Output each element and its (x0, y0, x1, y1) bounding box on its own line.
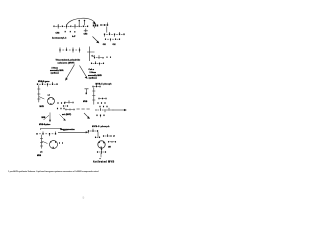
svg-text:MVB-5-phos: MVB-5-phos (39, 124, 50, 126)
text MVP block (56, 59, 82, 65)
arrow to side product (114, 109, 127, 111)
svg-text:MVB-5 phosph: MVB-5 phosph (92, 126, 110, 128)
center structure (59, 47, 95, 62)
top-right structure (103, 27, 125, 47)
branch arrow down-right (93, 37, 100, 44)
right-middle structure (92, 84, 113, 117)
diag arrow right of left structure (60, 115, 66, 121)
left-middle structure (37, 82, 65, 109)
caption (8, 170, 98, 173)
svg-text:o-t: o-t (48, 93, 51, 96)
svg-text:synthase: synthase (89, 76, 98, 79)
svg-text:Activated MVB: Activated MVB (93, 161, 115, 164)
svg-text:MVB: MVB (37, 155, 42, 157)
right structure CoA arm (89, 55, 112, 71)
left branch arrow (65, 65, 74, 81)
label Activated MVB (93, 161, 115, 164)
svg-text:9: 9 (83, 196, 85, 200)
svg-text:synthase: synthase (51, 72, 60, 75)
svg-text:CH3: CH3 (56, 33, 60, 35)
svg-text:assembly MVA: assembly MVA (50, 69, 64, 72)
svg-text:CH3: CH3 (84, 33, 88, 35)
chain1 tail to right (100, 23, 108, 26)
svg-text:MVB-5 gene: MVB-5 gene (38, 81, 50, 83)
svg-text:Triacetylated-anhydride: Triacetylated-anhydride (56, 59, 82, 62)
label MVB-5 phos above product (92, 126, 110, 128)
label ATP (72, 35, 76, 38)
label Acetoacetyl-CoA (52, 37, 67, 40)
left-bottom structure (36, 128, 65, 157)
right route text (88, 72, 102, 79)
left down arrow (44, 113, 52, 123)
overexpression arrow (58, 129, 88, 133)
svg-text:1 pro-MVB synthesis Scheme. Li: 1 pro-MVB synthesis Scheme. Lipid and tw… (8, 170, 98, 173)
left route text (50, 67, 64, 74)
top chain (53, 20, 98, 33)
center connector MVB (62, 89, 90, 117)
label above left-bottom structure (39, 124, 50, 126)
svg-text:unknown (MVP): unknown (MVP) (58, 62, 75, 64)
svg-text:Acetoacetyl-C: Acetoacetyl-C (52, 37, 67, 40)
right branch arrow (80, 66, 88, 79)
top chain branch (84, 29, 88, 36)
top chain sub CH3 (56, 33, 60, 35)
label MVB-5 gene left (38, 81, 50, 83)
tiny label near down arrow (42, 117, 47, 119)
svg-text:act. (MVP): act. (MVP) (62, 113, 72, 116)
label MVB-5 phos right (96, 84, 113, 86)
svg-text:Overexpression: Overexpression (60, 129, 75, 131)
product structure Activated MVB (88, 129, 116, 160)
page number (83, 196, 85, 200)
curved arrow (67, 18, 96, 25)
svg-text:MVB-5 phosph: MVB-5 phosph (96, 84, 113, 86)
svg-text:MVB: MVB (83, 101, 88, 103)
svg-text:MVB: MVB (40, 106, 45, 108)
svg-text:CoA o: CoA o (89, 68, 95, 71)
small down-right arrow (84, 113, 90, 119)
